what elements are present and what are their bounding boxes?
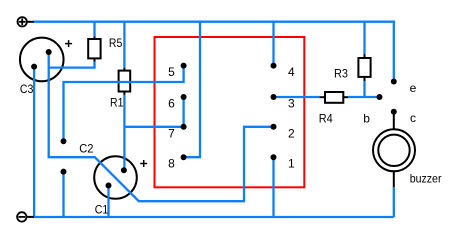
svg-text:3: 3 (288, 96, 295, 110)
wire: C3- down to ground bus (33, 67, 35, 217)
wire: R5 bottom lead to C3+ branch (93, 62, 95, 68)
wire: C1- down to ground bus (107, 186, 109, 218)
resistor R4 (319, 92, 348, 103)
svg-text:R5: R5 (109, 36, 123, 50)
wire: pin 5 left behind R1 down to C2 top (64, 66, 184, 142)
svg-text:c: c (410, 111, 416, 125)
svg-text:4: 4 (288, 65, 295, 79)
wire: bus down to pin 4 (272, 22, 274, 66)
capacitor C1 body (94, 156, 137, 199)
wire: bus down to pin 8 (184, 22, 200, 158)
svg-text:C3: C3 (20, 82, 34, 96)
C3 polarity + (65, 40, 72, 47)
wire: pin 1 down to ground bus (272, 157, 274, 217)
svg-text:R3: R3 (334, 66, 348, 80)
svg-text:2: 2 (288, 126, 295, 140)
svg-text:1: 1 (288, 157, 295, 171)
resistor R3 (358, 54, 370, 82)
wire: bus down to R1 top (123, 22, 125, 68)
svg-text:e: e (410, 81, 417, 95)
C1 + pin dot (121, 167, 127, 173)
node c (391, 109, 397, 115)
wire: pin 3 to R4 left lead (274, 96, 320, 98)
wire: buzzer bottom to ground bus (393, 187, 395, 217)
+ terminal (18, 17, 35, 26)
pin 1 (271, 154, 277, 160)
buzzer body (373, 129, 415, 171)
svg-text:5: 5 (168, 65, 175, 79)
resistor R5 (88, 36, 100, 62)
buzzer bottom lead (393, 172, 395, 188)
svg-text:C1: C1 (95, 203, 109, 217)
wire: C3+ down, along bottom, diagonal over C1, to pin 2 (49, 52, 274, 201)
wire: R1 bottom branch to pin 7 (124, 126, 183, 128)
C1 polarity + (140, 160, 147, 167)
C3 + pin dot (46, 49, 52, 55)
wire: C3+ branch to R5 bottom (49, 66, 96, 68)
pin 4 (271, 63, 277, 69)
capacitor C3 body (20, 38, 64, 82)
IC U1 red outline (155, 37, 305, 187)
svg-text:C2: C2 (79, 141, 93, 155)
svg-text:b: b (363, 111, 370, 125)
node e (391, 79, 397, 85)
pin 3 (271, 94, 277, 100)
wire: top supply bus from + terminal to e (34, 22, 394, 82)
wire: bottom ground bus (34, 216, 394, 218)
C2 bottom pin dot (61, 169, 67, 175)
wire: C2 bottom to ground bus (62, 172, 64, 217)
C2 top pin dot (61, 138, 67, 144)
pin 2 (271, 124, 277, 130)
svg-text:buzzer: buzzer (410, 171, 442, 185)
C3 - pin dot (31, 64, 37, 70)
pin 6 (181, 94, 187, 100)
wire: R3 bottom down to pin3/R4 wire (363, 81, 365, 97)
resistor R1 (119, 68, 131, 96)
svg-text:8: 8 (168, 157, 175, 171)
wire: bus down to R3 top (363, 22, 365, 55)
buzzer top lead (393, 114, 395, 129)
- terminal (17, 212, 34, 221)
node b (377, 94, 383, 100)
svg-text:7: 7 (168, 126, 175, 140)
wire: R4 right lead to b junction (348, 96, 380, 98)
svg-text:R4: R4 (319, 111, 333, 125)
C1 - pin dot (106, 183, 112, 189)
wire: pin 6 to pin 7 link (182, 97, 184, 127)
pin 5 (181, 63, 187, 69)
pin 7 (181, 124, 187, 130)
pin 8 (181, 154, 187, 160)
wire: R1 bottom down to C1+ (123, 95, 125, 171)
svg-text:R1: R1 (110, 95, 124, 109)
wire: R5 vertical branch from bus (93, 22, 95, 37)
svg-text:6: 6 (168, 96, 175, 110)
